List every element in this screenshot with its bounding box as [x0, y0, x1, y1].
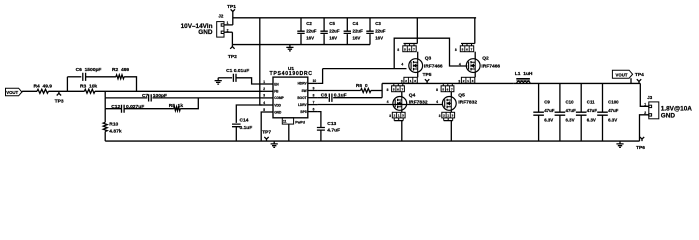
svg-text:5: 5	[393, 87, 395, 91]
svg-text:1.8V@10A: 1.8V@10A	[661, 105, 692, 112]
svg-text:1: 1	[227, 21, 229, 25]
svg-text:16V: 16V	[329, 36, 337, 41]
svg-text:C7: C7	[142, 93, 149, 99]
wire VOUT rail	[514, 82, 641, 84]
connector J3	[649, 102, 659, 119]
svg-text:5: 5	[462, 47, 464, 51]
transistor Q5 source box	[442, 112, 455, 118]
svg-text:FB: FB	[274, 90, 279, 94]
pin 1 J2	[224, 24, 233, 26]
svg-text:R10: R10	[109, 122, 118, 128]
svg-text:2: 2	[394, 114, 396, 118]
wire R5 up to COMP branch	[180, 98, 198, 109]
svg-text:47uF: 47uF	[566, 108, 577, 113]
svg-text:22uF: 22uF	[329, 29, 340, 34]
capacitor C12	[122, 105, 125, 113]
wire input top rail	[233, 17, 476, 19]
svg-text:C2: C2	[306, 21, 312, 26]
svg-text:C3: C3	[375, 21, 381, 26]
svg-text:22uF: 22uF	[375, 29, 386, 34]
svg-text:4: 4	[401, 63, 403, 67]
wire TP2 drop	[231, 32, 233, 44]
transistor Q5 drain lead	[450, 92, 452, 97]
wire HDRV to Q3 gate	[323, 68, 407, 70]
wire GND pin down	[260, 112, 263, 141]
wire junction up to C6 branch	[66, 77, 68, 92]
wire C13 to ground rail	[320, 130, 322, 141]
svg-text:EN: EN	[274, 82, 279, 86]
svg-text:6: 6	[397, 87, 399, 91]
net VOUT tag (left)	[6, 88, 22, 96]
svg-text:5: 5	[404, 47, 406, 51]
svg-text:R3 10k: R3 10k	[80, 84, 97, 90]
test point TP3	[57, 91, 61, 95]
node FB junction vertical	[104, 91, 106, 98]
svg-text:C12: C12	[111, 104, 120, 110]
wire Q4 source to ground rail	[394, 121, 403, 142]
wire VDD feed	[260, 18, 262, 105]
svg-text:TP6: TP6	[636, 145, 645, 151]
svg-text:5: 5	[263, 108, 265, 112]
pin 11 PwPd pad	[282, 118, 293, 124]
transistor Q5 drain box	[441, 86, 454, 92]
transistor Q3 source box	[404, 77, 417, 83]
svg-text:6.3V: 6.3V	[587, 117, 596, 122]
transistor Q3 drain box	[403, 46, 416, 52]
resistor R5	[174, 107, 180, 111]
svg-text:IRF7832: IRF7832	[409, 99, 428, 105]
svg-text:3: 3	[452, 114, 454, 118]
svg-text:GND: GND	[198, 29, 213, 36]
transistor Q2 drain box	[460, 46, 473, 52]
svg-text:BP5: BP5	[300, 110, 306, 114]
capacitor C2	[300, 18, 302, 45]
svg-text:4: 4	[436, 100, 438, 104]
pin 1 EN	[262, 83, 273, 85]
transistor Q5 source ticks	[444, 118, 453, 121]
svg-text:3: 3	[414, 79, 416, 83]
svg-text:10: 10	[313, 79, 317, 83]
pin 6 BP5	[308, 111, 318, 113]
svg-text:1: 1	[398, 114, 400, 118]
capacitor C8	[329, 94, 332, 102]
svg-text:1: 1	[447, 114, 449, 118]
transistor Q2 drain lead	[474, 52, 476, 59]
pin 2 J2	[224, 31, 232, 33]
resistor R4	[37, 89, 48, 93]
svg-text:Q3: Q3	[425, 55, 432, 61]
net VOUT tag (right)	[612, 70, 632, 78]
svg-text:C8: C8	[321, 92, 328, 98]
ground C1	[215, 78, 222, 84]
wire bottom ground rail	[105, 140, 639, 142]
resistor R6	[361, 89, 371, 93]
wire C12 to R5	[124, 108, 174, 110]
transistor Q3 drain box ticks	[405, 44, 414, 46]
wire rail to J3 pin1	[640, 83, 649, 106]
wire SW node vertical	[381, 83, 383, 97]
resistor R3	[84, 89, 95, 93]
wire VOUT tag tick	[630, 78, 632, 83]
svg-text:J3: J3	[647, 95, 652, 100]
svg-text:C4: C4	[353, 21, 359, 26]
transistor Q3 source lead	[417, 73, 419, 78]
wire C8 to SW node	[333, 97, 382, 99]
test point TP7	[264, 137, 268, 141]
transistor Q4 source ticks	[394, 118, 403, 121]
transistor Q3 IRF7466	[409, 59, 423, 73]
wire BOOT to C8	[318, 97, 328, 99]
test point TP5	[425, 79, 429, 83]
svg-text:HDRV: HDRV	[298, 82, 308, 86]
svg-text:TP7: TP7	[262, 129, 271, 135]
transistor Q5 drain ticks	[443, 83, 452, 85]
svg-text:3: 3	[401, 79, 403, 83]
capacitor C11	[580, 83, 582, 141]
svg-text:3: 3	[472, 79, 474, 83]
svg-text:2: 2	[405, 79, 407, 83]
test point TP6	[640, 137, 644, 141]
transistor Q3 source ticks	[406, 82, 415, 84]
svg-text:C14: C14	[240, 118, 249, 124]
svg-text:6: 6	[313, 107, 315, 111]
wire gnd to C1	[218, 77, 232, 79]
svg-text:22uF: 22uF	[353, 29, 364, 34]
svg-text:7: 7	[313, 100, 315, 104]
ground bottom rail left	[271, 141, 278, 147]
svg-text:C11: C11	[587, 99, 595, 104]
svg-text:3: 3	[402, 114, 404, 118]
svg-text:7: 7	[413, 47, 415, 51]
svg-text:7: 7	[451, 87, 453, 91]
svg-text:16V: 16V	[353, 36, 361, 41]
svg-text:47uF: 47uF	[608, 108, 619, 113]
svg-text:2: 2	[463, 79, 465, 83]
transistor Q2 source box	[461, 77, 474, 83]
svg-text:TP3: TP3	[55, 99, 64, 105]
svg-text:C10: C10	[566, 99, 575, 104]
wire COMP branch	[105, 97, 147, 99]
transistor Q2 source ticks	[464, 82, 473, 84]
svg-text:22uF: 22uF	[306, 29, 317, 34]
transistor Q5 source lead	[450, 110, 452, 112]
svg-text:6.3V: 6.3V	[608, 117, 617, 122]
transistor Q4 source box	[392, 112, 405, 118]
capacitor C10	[559, 83, 561, 141]
svg-text:0.1uF: 0.1uF	[240, 125, 253, 131]
test point TP1	[231, 9, 235, 25]
capacitor C1	[233, 74, 236, 82]
svg-text:SW: SW	[301, 89, 306, 93]
svg-text:6: 6	[466, 47, 468, 51]
svg-text:3: 3	[439, 114, 441, 118]
transistor Q5 IRF7832	[442, 97, 456, 111]
svg-text:TP5: TP5	[423, 72, 432, 78]
capacitor C100	[602, 83, 604, 141]
svg-text:R2 499: R2 499	[112, 67, 129, 73]
svg-text:3: 3	[389, 114, 391, 118]
svg-text:GND: GND	[274, 110, 282, 114]
svg-text:R6 0: R6 0	[356, 83, 368, 89]
svg-text:6: 6	[409, 47, 411, 51]
pin 5 GND	[262, 111, 273, 113]
connector J2	[217, 22, 224, 37]
svg-text:IRF7832: IRF7832	[458, 99, 477, 105]
wire SW rail	[382, 82, 514, 84]
wire R2 to junction	[124, 77, 136, 92]
svg-text:16V: 16V	[375, 36, 383, 41]
svg-text:C1 0.01uF: C1 0.01uF	[226, 68, 249, 74]
svg-text:L1 1uH: L1 1uH	[515, 71, 533, 77]
transistor Q4 IRF7832	[393, 97, 407, 111]
svg-text:R4 49.9: R4 49.9	[34, 84, 53, 90]
capacitor C9	[538, 83, 540, 141]
svg-text:C100: C100	[608, 99, 619, 104]
capacitor C7	[149, 94, 152, 101]
capacitor C4	[346, 18, 348, 45]
capacitor C6	[83, 73, 86, 81]
wire J3 pin2 to ground rail	[640, 115, 649, 141]
svg-text:1: 1	[467, 79, 469, 83]
svg-text:TPS40190DRC: TPS40190DRC	[270, 71, 313, 77]
wire R10 to ground rail	[104, 132, 106, 142]
svg-text:8: 8	[387, 88, 389, 92]
capacitor C5	[323, 18, 325, 45]
svg-text:Q2: Q2	[482, 55, 489, 61]
svg-text:VOUT: VOUT	[616, 72, 628, 77]
transistor Q3 drain lead	[417, 52, 419, 59]
transistor Q4 drain ticks	[394, 83, 403, 85]
svg-text:3: 3	[263, 94, 265, 98]
svg-text:7: 7	[471, 47, 473, 51]
resistor R10	[103, 122, 107, 131]
wire R4 to junction	[48, 90, 67, 92]
transistor Q4 drain lead	[401, 92, 403, 97]
svg-text:2: 2	[443, 114, 445, 118]
resistor R2	[116, 75, 124, 79]
svg-text:Q5: Q5	[458, 92, 465, 98]
svg-text:47uF: 47uF	[544, 108, 555, 113]
wire SW pin to R6	[318, 90, 361, 92]
capacitor C14	[232, 124, 241, 127]
transistor Q3 drain feed	[404, 18, 418, 44]
svg-text:16V: 16V	[306, 36, 314, 41]
wire R6 to SW node	[371, 90, 382, 92]
op-amp U1 TPS40190DRC body	[273, 77, 308, 118]
svg-text:BOOT: BOOT	[297, 96, 306, 100]
wire C14 to ground rail	[235, 127, 237, 142]
svg-text:8: 8	[313, 94, 315, 98]
pin 8 BOOT	[308, 97, 318, 99]
svg-text:3: 3	[458, 79, 460, 83]
wire FB main	[67, 90, 262, 92]
svg-text:J2: J2	[218, 13, 223, 18]
svg-text:TP1: TP1	[227, 4, 236, 10]
svg-text:2: 2	[227, 29, 229, 33]
svg-text:5: 5	[442, 87, 444, 91]
test point TP2	[230, 45, 234, 49]
svg-text:1: 1	[410, 79, 412, 83]
transistor Q4 source lead	[401, 110, 403, 112]
svg-text:TP2: TP2	[228, 54, 237, 60]
svg-text:6.3V: 6.3V	[544, 117, 553, 122]
svg-text:7: 7	[401, 87, 403, 91]
svg-text:6: 6	[447, 87, 449, 91]
wire FB down to R10	[104, 109, 106, 123]
wire FB down to C12 branch	[104, 98, 106, 109]
svg-text:IRF7466: IRF7466	[424, 63, 443, 69]
transistor Q4 drain box	[392, 86, 405, 92]
svg-text:VDD: VDD	[274, 103, 281, 107]
wire input gnd rail	[232, 44, 370, 46]
test point TP4	[637, 79, 641, 83]
wire Q5 source to ground rail	[444, 121, 453, 142]
svg-text:VOUT: VOUT	[6, 90, 18, 95]
svg-text:LDRV: LDRV	[298, 103, 307, 107]
capacitor C13	[317, 128, 325, 131]
capacitor C3	[369, 18, 371, 45]
pin 2 FB	[262, 90, 273, 92]
svg-text:4.7uF: 4.7uF	[327, 127, 340, 133]
wire C6 branch left	[67, 76, 81, 78]
svg-text:TP4: TP4	[635, 72, 644, 78]
svg-text:8: 8	[455, 48, 457, 52]
svg-text:1: 1	[263, 80, 265, 84]
ground input rail	[286, 45, 293, 51]
svg-text:C5: C5	[329, 21, 335, 26]
transistor Q2 IRF7466	[466, 59, 480, 73]
svg-text:PwPd: PwPd	[295, 121, 305, 125]
svg-text:6.3V: 6.3V	[566, 117, 575, 122]
svg-text:1: 1	[644, 102, 646, 106]
wire C7 to COMP pin	[153, 97, 263, 99]
pin 4 VDD	[262, 104, 273, 106]
wire VOUT to R4	[22, 90, 37, 93]
wire C1 to EN pin	[236, 78, 262, 84]
ground bottom rail right	[616, 141, 623, 147]
svg-text:Q4: Q4	[409, 92, 416, 98]
svg-text:9: 9	[313, 86, 315, 90]
svg-text:8: 8	[436, 88, 438, 92]
svg-text:8: 8	[397, 48, 399, 52]
wire C12 branch left	[105, 108, 121, 110]
pin 9 SW	[308, 90, 318, 92]
wire HDRV over-route to Q2 gate	[394, 38, 467, 68]
transistor Q2 drain box ticks	[463, 44, 472, 46]
svg-text:COMP: COMP	[274, 96, 284, 100]
svg-text:C13: C13	[327, 121, 336, 127]
pin 7 LDRV	[308, 104, 318, 106]
svg-text:4: 4	[387, 100, 389, 104]
svg-text:47uF: 47uF	[587, 108, 598, 113]
inductor L1	[516, 79, 530, 80]
wire pad to ground rail	[288, 124, 290, 141]
svg-text:2: 2	[263, 87, 265, 91]
svg-text:GND: GND	[661, 112, 676, 119]
transistor Q2 source lead	[474, 73, 476, 78]
svg-text:C6 1500pF: C6 1500pF	[76, 67, 102, 73]
wire BP5 to C13	[318, 112, 321, 128]
svg-text:4: 4	[459, 63, 461, 67]
wire HDRV up	[318, 69, 323, 84]
svg-text:4: 4	[263, 101, 265, 105]
pin 10 HDRV	[308, 82, 318, 84]
wire VDD to C14	[236, 105, 262, 123]
wire C6 to R2	[86, 76, 116, 78]
svg-text:4.87k: 4.87k	[109, 129, 122, 135]
transistor Q2 drain feed	[461, 18, 475, 44]
svg-text:11: 11	[283, 120, 287, 124]
svg-text:IRF7466: IRF7466	[481, 63, 500, 69]
svg-text:C9: C9	[544, 99, 550, 104]
pin 3 COMP	[262, 97, 273, 99]
wire LDRV to gates	[318, 104, 443, 106]
